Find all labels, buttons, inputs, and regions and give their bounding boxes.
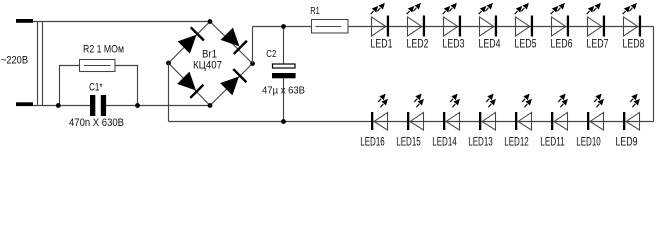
- svg-text:47µ x 63В: 47µ x 63В: [262, 85, 305, 97]
- svg-text:C2: C2: [266, 48, 276, 60]
- terminal top input: [16, 19, 33, 23]
- wire minus rail: [169, 121, 654, 123]
- wire bridge diagonal top-right: [210, 22, 253, 64]
- svg-text:LED8: LED8: [623, 39, 645, 51]
- capacitor C1: [90, 95, 106, 116]
- capacitor C2: [272, 64, 296, 78]
- LED LED13: [479, 94, 496, 130]
- svg-text:LED10: LED10: [576, 137, 601, 148]
- svg-text:LED14: LED14: [432, 137, 457, 148]
- node C2 bottom: [281, 119, 286, 124]
- wire bridge diagonal left-bottom: [169, 63, 211, 106]
- wire bottom AC rail right: [106, 105, 210, 107]
- wire bridge diagonal left-top: [169, 22, 211, 64]
- wire input vertical B: [42, 21, 44, 106]
- LED LED8: [623, 3, 641, 36]
- svg-text:LED1: LED1: [371, 39, 393, 51]
- svg-text:КЦ407: КЦ407: [193, 60, 222, 72]
- svg-text:LED3: LED3: [443, 39, 465, 51]
- LED LED2: [407, 3, 425, 36]
- LED LED3: [443, 3, 461, 36]
- wire C2 bottom stub: [283, 78, 285, 121]
- terminal bottom input: [16, 102, 33, 106]
- wire plus riser from right node: [252, 27, 254, 64]
- LED LED10: [587, 94, 604, 130]
- node bridge left: [166, 61, 171, 66]
- wire bridge diagonal bottom-right: [210, 64, 253, 106]
- wire plus rail: [253, 26, 312, 28]
- svg-text:R2 1 МОм: R2 1 МОм: [83, 44, 124, 56]
- node bridge right: [250, 61, 255, 66]
- LED LED4: [479, 3, 497, 36]
- diode bridge top-left: [177, 27, 204, 54]
- wire bottom AC rail left: [33, 105, 90, 107]
- LED LED16: [371, 94, 388, 130]
- LED LED11: [551, 94, 568, 130]
- svg-text:LED15: LED15: [396, 137, 421, 148]
- wire C2 top stub: [283, 27, 285, 65]
- wire top AC rail: [33, 21, 210, 23]
- svg-text:LED12: LED12: [504, 137, 529, 148]
- resistor R1: [312, 20, 349, 34]
- svg-text:470n X 630В: 470n X 630В: [69, 117, 124, 129]
- wire R2 branch right: [115, 66, 138, 106]
- wire right edge vertical: [653, 27, 655, 122]
- node bridge bottom: [208, 103, 213, 108]
- LED LED14: [443, 94, 460, 130]
- diode bridge bottom-left: [177, 71, 204, 98]
- node bridge top: [208, 19, 213, 24]
- LED LED5: [515, 3, 533, 36]
- LED LED6: [551, 3, 569, 36]
- svg-text:LED11: LED11: [540, 137, 565, 148]
- diode bridge bottom-right: [220, 69, 247, 96]
- svg-text:C1*: C1*: [89, 82, 103, 94]
- svg-text:R1: R1: [310, 5, 320, 17]
- LED LED1: [371, 3, 389, 36]
- node junction R2-left: [56, 103, 61, 108]
- svg-text:~220В: ~220В: [1, 55, 28, 67]
- LED LED7: [587, 3, 605, 36]
- diode bridge top-right: [220, 27, 247, 54]
- svg-text:LED16: LED16: [360, 137, 385, 148]
- svg-text:LED9: LED9: [616, 137, 638, 148]
- LED LED12: [515, 94, 532, 130]
- node junction R2-right: [135, 103, 140, 108]
- svg-text:LED6: LED6: [551, 39, 573, 51]
- wire input vertical A: [37, 21, 39, 106]
- node C2 top: [281, 24, 286, 29]
- resistor R2: [80, 60, 116, 72]
- svg-text:LED7: LED7: [587, 39, 609, 51]
- svg-text:LED4: LED4: [479, 39, 501, 51]
- svg-text:LED13: LED13: [468, 137, 493, 148]
- LED LED9: [623, 94, 640, 130]
- wire LED top rail: [348, 26, 654, 28]
- LED LED15: [407, 94, 424, 130]
- wire R2 branch left: [60, 66, 80, 106]
- svg-text:LED5: LED5: [515, 39, 537, 51]
- svg-text:LED2: LED2: [407, 39, 429, 51]
- wire minus drop from left node: [168, 63, 170, 122]
